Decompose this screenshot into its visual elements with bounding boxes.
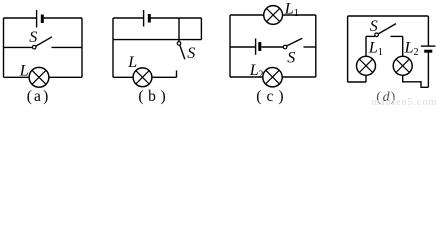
switch S pivot (c) [283,45,287,49]
svg-text:manfen5.com: manfen5.com [372,97,437,105]
switch S pivot (b) [177,42,181,46]
wire: circuit (b) left vertical [112,18,114,77]
svg-text:L: L [127,54,137,71]
wire: circuit (a) top wire with battery gap [4,17,83,19]
svg-text:S: S [370,18,378,35]
lamp L (b) cross [136,71,149,84]
switch S pivot (d) [375,33,379,37]
lamp L2 (c) circle [263,68,282,87]
switch S blade (a) open [36,37,52,46]
switch S blade (c) open [287,38,303,46]
svg-text:1: 1 [294,8,299,19]
wire: circuit (d) left vertical [347,16,349,82]
switch S pivot (a) [32,45,36,49]
battery (a) long plate [36,10,38,28]
lamp L2 (d) cross [396,59,409,72]
lamp L1 (d) cross [359,59,372,72]
wire: circuit (a) left vertical [3,18,5,77]
wire: circuit (d) right vertical upper (top wire to battery) [427,16,429,46]
wire: circuit (c) top wire with lamp gap [230,14,316,16]
battery (c) long plate [255,39,257,55]
switch S blade (b) open [180,45,185,59]
battery (d) short thick plate [424,50,432,53]
battery (c) short thick plate [258,42,261,51]
svg-text:(c): (c) [256,88,288,105]
wire: circuit (c) right vertical [315,15,317,77]
wire: circuit (b) right vertical upper [200,18,202,40]
battery (d) long plate [421,45,436,47]
svg-text:S: S [287,50,295,67]
svg-text:S: S [187,45,195,62]
wire: circuit (c) middle wire from battery to switch pivot [261,46,283,48]
battery (b) long plate [143,10,145,27]
wire: circuit (d) branch-top wire right fixed segment [391,35,403,37]
svg-text:S: S [29,29,37,46]
lamp L (b) circle [133,68,152,87]
wire: circuit (d) branch-top wire left segment to switch pivot [366,35,375,37]
svg-text:L: L [368,40,378,57]
svg-text:(a): (a) [27,88,51,105]
svg-text:L: L [404,40,414,57]
svg-text:(b): (b) [138,88,170,105]
svg-text:2: 2 [413,47,418,58]
wire: circuit (d) right vertical lower from battery to bottom jog [427,53,429,88]
lamp L (a) cross [32,70,46,84]
wire: circuit (b) inner vertical from top wire to switch pivot [178,18,180,42]
wire: circuit (c) middle wire right of switch [304,46,316,48]
lamp L (a) circle [29,67,49,87]
svg-text:L: L [284,1,294,18]
wire: circuit (d) L2 branch lower stub and bottom right jog [403,75,429,87]
lamp L2 (c) cross [266,70,279,83]
wire: circuit (b) middle horizontal [113,39,201,41]
lamp L2 (d) circle [393,56,412,75]
wire: circuit (d) L1 branch upper vertical [365,36,367,56]
wire: circuit (c) left vertical [229,15,231,77]
wire: circuit (b) bottom wire with lamp gap [113,76,177,78]
svg-text:2: 2 [258,70,263,81]
wire: circuit (d) L1 branch lower stub [365,75,367,82]
wire: circuit (d) bottom left horizontal to lamp L1 branch [348,81,366,83]
svg-text:L: L [19,62,29,79]
wire: circuit (a) bottom wire with lamp gap [4,76,83,78]
wire: circuit (a) middle wire with switch gap [4,46,83,48]
lamp L1 (c) cross [267,8,280,21]
lamp L1 (d) circle [357,56,376,75]
wire: circuit (b) switch lower contact stub [176,70,178,77]
switch S blade (d) open [378,24,396,34]
wire: circuit (c) bottom wire with lamp gap [230,76,316,78]
wire: circuit (c) middle wire left of battery [230,46,255,48]
battery (b) short thick plate [148,14,151,23]
svg-text:1: 1 [378,47,383,58]
lamp L1 (c) circle [264,6,283,25]
wire: circuit (d) top wire [348,15,429,17]
wire: circuit (a) right vertical [81,18,83,77]
wire: circuit (b) top wire with battery gap [113,17,201,19]
battery (a) short thick plate [41,15,44,24]
wire: circuit (d) L2 branch upper vertical [402,36,404,56]
